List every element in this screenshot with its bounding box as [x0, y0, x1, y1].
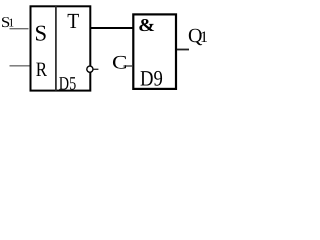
svg-text:S: S — [35, 21, 48, 46]
svg-text:&: & — [138, 15, 155, 35]
svg-text:C: C — [112, 53, 127, 74]
svg-text:D5: D5 — [59, 74, 76, 95]
svg-text:R: R — [36, 59, 48, 81]
svg-text:1: 1 — [200, 29, 207, 46]
svg-text:D9: D9 — [140, 66, 163, 91]
svg-text:1: 1 — [8, 16, 14, 30]
svg-text:T: T — [67, 9, 79, 33]
